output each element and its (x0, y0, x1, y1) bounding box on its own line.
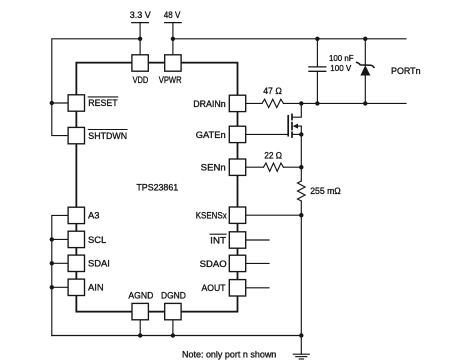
svg-text:100 nF: 100 nF (329, 53, 354, 63)
wire GATEn to gate (246, 133, 289, 135)
resistor R1 47 ohm (262, 85, 283, 108)
wire 3.3V rail to left bus down to SHTDWN (52, 39, 140, 136)
wire INT stub (246, 239, 269, 241)
wire DRAINn to resistor (246, 102, 262, 104)
svg-text:INT: INT (210, 234, 226, 245)
ground symbol (293, 336, 309, 360)
node SCL junction (50, 237, 54, 241)
svg-text:100 V: 100 V (330, 63, 351, 73)
wire bus to SCL (52, 238, 68, 240)
resistor R2 22 ohm (264, 149, 284, 171)
svg-text:3.3 V: 3.3 V (130, 9, 152, 20)
node ground junction (299, 333, 303, 337)
svg-text:KSENSx: KSENSx (196, 210, 227, 221)
svg-text:AOUT: AOUT (202, 282, 226, 293)
zener diode D1 (357, 39, 374, 104)
svg-text:DGND: DGND (161, 290, 186, 301)
node cap bottom junction (315, 101, 319, 105)
wire resistor to source line (283, 166, 301, 168)
pin AGND (128, 290, 153, 320)
pin VPWR (159, 55, 182, 85)
wire mosfet source down (300, 134, 302, 167)
transistor Q1 nmos (288, 103, 303, 137)
svg-text:AIN: AIN (88, 282, 104, 293)
pin A3 (68, 207, 99, 223)
wire AGND down (139, 320, 141, 336)
wire bottom ground rail (52, 335, 301, 337)
resistor R3 255 mohm (298, 167, 341, 215)
node mosfet drain junction (299, 101, 303, 105)
wire KSENSx (246, 214, 302, 216)
pin AIN (68, 279, 104, 295)
svg-text:VDD: VDD (133, 74, 149, 85)
pin DRAINn (193, 95, 246, 111)
node DGND junction (171, 333, 175, 337)
pin GATEn (196, 126, 246, 142)
node zener top junction (363, 37, 367, 41)
wire bus to AIN (52, 286, 68, 288)
wire SENn to resistor (246, 166, 264, 168)
svg-text:RESET: RESET (88, 97, 118, 108)
node zener bottom junction (363, 101, 367, 105)
supply 3.3 V (130, 9, 152, 55)
node 22ohm junction (299, 165, 303, 169)
node 48V junction (171, 37, 175, 41)
wire down to ground rail (300, 215, 302, 335)
svg-text:22 Ω: 22 Ω (264, 149, 282, 160)
node RESET bus junction (50, 101, 54, 105)
wire 48V top rail (173, 38, 406, 40)
svg-text:A3: A3 (88, 210, 99, 221)
svg-text:255 mΩ: 255 mΩ (310, 185, 341, 196)
svg-text:47 Ω: 47 Ω (263, 85, 282, 96)
capacitor C1 100nF 100V (309, 39, 354, 104)
pin KSENSx (196, 207, 246, 223)
node AGND junction (138, 333, 142, 337)
svg-text:SDAI: SDAI (88, 258, 110, 269)
svg-text:TPS23861: TPS23861 (136, 182, 178, 193)
svg-text:DRAINn: DRAINn (193, 98, 226, 109)
wire SDAO stub (246, 262, 269, 264)
svg-text:SDAO: SDAO (200, 258, 227, 269)
wire AOUT stub (246, 287, 269, 289)
pin SDAO (200, 255, 246, 271)
wire left bus lower (52, 215, 68, 335)
pin SENn (201, 159, 246, 175)
wire bus to SDAI (52, 262, 68, 264)
node cap top junction (315, 37, 319, 41)
svg-text:SENn: SENn (201, 162, 226, 173)
node AIN junction (50, 285, 54, 289)
supply 48 V (164, 9, 181, 55)
svg-text:Note: only port n shown: Note: only port n shown (182, 349, 276, 360)
svg-text:AGND: AGND (128, 290, 153, 301)
wire port rail (284, 102, 407, 104)
svg-text:VPWR: VPWR (159, 74, 182, 85)
svg-text:SCL: SCL (88, 234, 106, 245)
wire left bus to RESET (52, 102, 68, 104)
svg-text:SHTDWN: SHTDWN (88, 130, 127, 141)
pin SHTDWN (68, 127, 127, 143)
wire DGND down (172, 320, 174, 336)
pin AOUT (202, 280, 246, 296)
svg-text:48 V: 48 V (164, 9, 181, 20)
svg-text:PORTn: PORTn (391, 65, 421, 76)
pin VDD (132, 55, 149, 85)
pin RESET (68, 95, 118, 111)
pin INT (210, 232, 246, 248)
node KSENSx junction (299, 213, 303, 217)
svg-text:GATEn: GATEn (196, 129, 226, 140)
node 3.3V junction (138, 37, 142, 41)
pin SCL (68, 231, 106, 247)
node SDAI junction (50, 261, 54, 265)
pin SDAI (68, 255, 110, 271)
IC U1 TPS23861 body (76, 63, 237, 312)
pin DGND (161, 290, 186, 320)
